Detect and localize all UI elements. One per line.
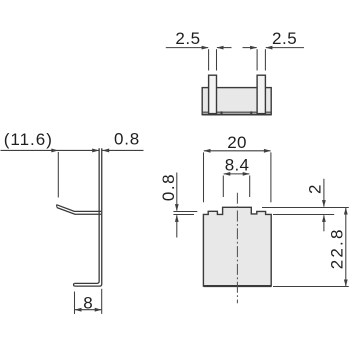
dimension 22.8 line <box>344 208 348 287</box>
dimension 2.5 right line <box>243 46 305 71</box>
front view side-level extension line <box>273 214 334 216</box>
top view left tab <box>209 75 217 114</box>
side view foot end cap <box>74 283 75 286</box>
side view flange tip cap <box>56 205 59 208</box>
front view centerline <box>236 193 238 304</box>
dimension 2 lines <box>322 179 326 232</box>
front view top-level extension line (raised top) <box>262 207 349 209</box>
svg-text:(11.6): (11.6) <box>4 130 53 149</box>
left tab bottom thick <box>209 113 217 115</box>
dimension 8.4 lines <box>223 172 249 197</box>
svg-text:20: 20 <box>227 133 247 152</box>
dimension 0.8 (tab height) lines <box>173 173 197 238</box>
top view foot tick left <box>221 111 223 114</box>
top view inner bottom line <box>203 111 271 113</box>
side view stem right line + foot bottom <box>75 148 102 286</box>
top view body <box>202 88 271 115</box>
dimension 20 lines <box>204 149 271 202</box>
svg-text:2.5: 2.5 <box>175 29 200 48</box>
svg-text:0.8: 0.8 <box>159 173 178 201</box>
svg-text:2.5: 2.5 <box>272 29 297 48</box>
front view body <box>203 207 271 286</box>
top view bottom thick line <box>202 114 271 116</box>
side view spring flange bottom line <box>57 208 101 215</box>
dimension (11.6) line <box>1 149 100 198</box>
front view bottom thick line <box>203 285 271 287</box>
right tab bottom thick <box>257 113 265 115</box>
dimension 0.8 (stem thickness) line <box>102 149 143 153</box>
dimension 2.5 left line <box>166 46 232 71</box>
top view foot tick right <box>250 111 252 114</box>
svg-text:8.4: 8.4 <box>225 155 250 174</box>
front view bottom extension line <box>273 286 349 288</box>
top view right tab <box>257 75 265 114</box>
side view stem left line + foot top <box>75 148 99 283</box>
side view spring flange top line <box>57 205 102 212</box>
dimension 8 lines <box>75 289 102 314</box>
svg-text:2: 2 <box>305 185 324 194</box>
svg-text:0.8: 0.8 <box>114 129 140 148</box>
svg-text:22.8: 22.8 <box>327 227 346 269</box>
